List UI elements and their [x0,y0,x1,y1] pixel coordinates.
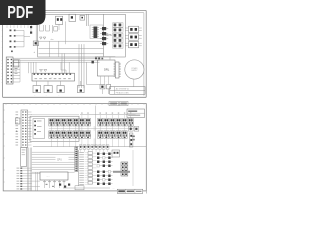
svg-text:SMPS: SMPS [104,33,112,37]
svg-text:–: – [1,66,2,68]
svg-text:–: – [1,69,2,71]
svg-text:–: – [1,79,2,81]
svg-text:·····: ····· [46,176,50,178]
svg-text:–: – [1,63,2,65]
svg-text:DRL: DRL [104,68,110,72]
svg-text:–: – [1,76,2,78]
svg-text:–: – [1,82,2,84]
svg-text:–: – [1,72,2,74]
svg-text:xfmr: xfmr [51,39,55,41]
svg-text:POWER: POWER [131,68,138,70]
svg-text:CPU: CPU [57,159,62,161]
svg-text:PDF: PDF [7,3,33,22]
svg-text:+: + [16,129,18,133]
svg-text:SUPPLY: SUPPLY [131,70,137,72]
svg-text:–: – [1,60,2,62]
svg-text:AC SYSTEM Ver: AC SYSTEM Ver [116,88,130,91]
svg-text:PW ACB CONN: PW ACB CONN [116,91,129,94]
